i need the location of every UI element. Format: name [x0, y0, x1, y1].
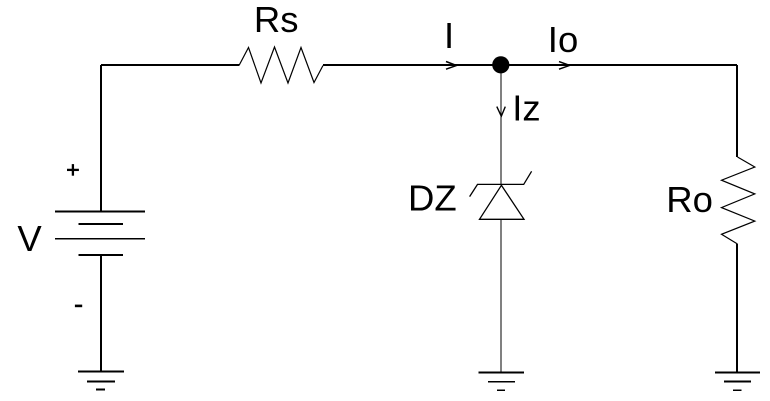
- arrow for current Iz: [497, 107, 506, 117]
- svg-text:V: V: [17, 218, 42, 259]
- battery V plus terminal label: [67, 164, 79, 176]
- svg-text:Rs: Rs: [254, 0, 299, 40]
- ground left: [78, 372, 124, 390]
- svg-text:I: I: [444, 15, 454, 56]
- ground middle: [479, 372, 524, 390]
- wire top-left horizontal from battery corner to Rs: [101, 64, 239, 66]
- svg-text:DZ: DZ: [408, 178, 457, 219]
- resistor Ro: [722, 157, 755, 244]
- wire from zener down to ground: [500, 219, 502, 372]
- wire top horizontal from Rs to right corner: [323, 64, 737, 66]
- arrow for current Io: [559, 62, 570, 70]
- wire from node down to zener: [500, 65, 502, 185]
- arrow for current I: [446, 62, 457, 70]
- ground right: [715, 372, 760, 390]
- battery minus terminal label: [75, 305, 82, 308]
- node junction dot: [492, 56, 509, 73]
- wire from battery down to ground: [100, 255, 102, 372]
- svg-text:Ro: Ro: [666, 179, 713, 220]
- battery V: [55, 212, 145, 256]
- wire right vertical from corner to Ro: [736, 65, 738, 157]
- svg-text:Iz: Iz: [512, 88, 540, 129]
- resistor Rs: [239, 47, 323, 83]
- zener diode DZ: [470, 171, 532, 219]
- wire left vertical from corner to battery: [100, 65, 102, 212]
- wire from Ro down to ground: [736, 244, 738, 372]
- svg-text:Io: Io: [548, 19, 578, 60]
